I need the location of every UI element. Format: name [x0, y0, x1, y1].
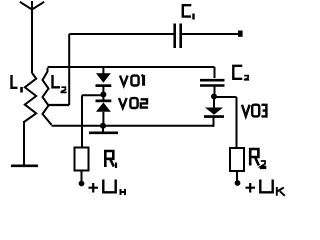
ground node 2: [89, 132, 118, 135]
inductor L1: [24, 74, 36, 123]
label L2: [53, 75, 61, 87]
inductor L2: [43, 68, 52, 125]
wire C1 to terminal: [182, 33, 238, 35]
label V01: [120, 76, 128, 86]
terminal dot R2: [235, 180, 241, 186]
wire C1 branch vertical: [68, 34, 70, 105]
resistor R1: [75, 148, 89, 171]
wire C2 stub from rail: [214, 67, 216, 78]
capacitor C1: [175, 24, 181, 49]
resistor R2: [230, 148, 244, 171]
terminal dot R1: [79, 181, 85, 187]
ground: [11, 165, 38, 168]
label +Un: [89, 183, 99, 193]
wire varicap midpoint: [82, 94, 103, 96]
terminal dot C1 output: [238, 31, 243, 37]
label V03: [242, 105, 250, 117]
wire R2 to terminal: [236, 171, 238, 181]
label C2: [233, 66, 242, 79]
varicap V01: [96, 73, 111, 83]
wire to C1: [69, 33, 173, 35]
labels drawn as blocky strokes: [12, 5, 285, 196]
wire C2 to node: [214, 87, 216, 98]
label C1: [183, 5, 192, 16]
wire node to R2: [214, 97, 237, 148]
wire midpoint to R1: [81, 95, 83, 147]
wire V02 to bottom rail: [102, 112, 104, 126]
node dot C2 bottom: [211, 94, 217, 100]
antenna: [20, 1, 44, 10]
wire L2 tap: [49, 104, 70, 106]
capacitor C2: [200, 80, 225, 85]
label +Uk: [246, 183, 256, 193]
wire node to V03: [213, 97, 215, 108]
wire between V01 and V02: [102, 87, 104, 100]
label V02: [119, 98, 127, 108]
wire top rail: [48, 66, 215, 68]
wire ground2 stub: [102, 126, 104, 132]
varicap V02: [96, 100, 112, 103]
label L1: [12, 75, 18, 88]
wire R1 to terminal: [81, 171, 83, 182]
wire L1 to ground: [23, 121, 25, 165]
label R2: [250, 149, 259, 166]
node dot diode bottom: [100, 123, 106, 129]
wire diode stack top stub: [102, 67, 104, 74]
label R1: [105, 151, 114, 167]
varicap V03: [205, 108, 223, 115]
wire antenna mast: [31, 10, 33, 74]
node dot varicap midpoint: [100, 92, 106, 98]
wire bottom rail: [52, 125, 214, 127]
diode V03 cathode lead: [213, 118, 215, 127]
